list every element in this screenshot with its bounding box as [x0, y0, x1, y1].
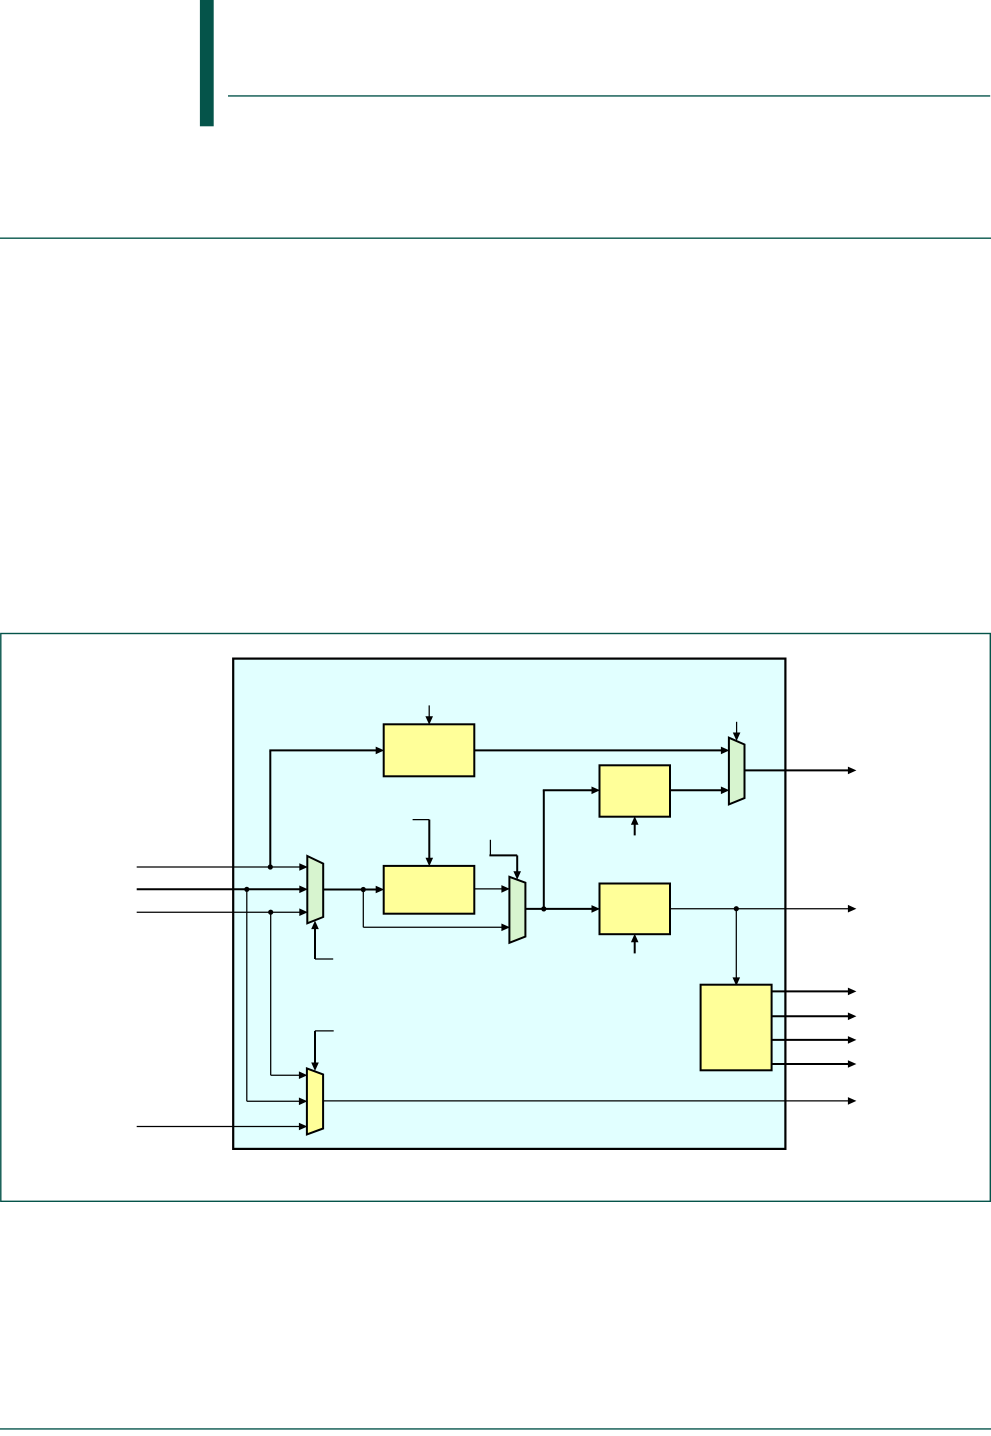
mux M2: [509, 877, 525, 943]
wire J6 down to B5: [735, 909, 737, 980]
wire B4 output to right: [670, 908, 850, 910]
wire J2 down to M4 input 2: [246, 889, 248, 1101]
wire control into M2 top: [489, 840, 491, 856]
node J1 on line 1: [268, 864, 273, 869]
mux M3: [729, 738, 745, 805]
wire B5 output 3: [772, 1039, 849, 1041]
header rule: [228, 95, 990, 97]
wire B5 output 2: [772, 1015, 849, 1017]
footer rule: [0, 1428, 991, 1430]
block B1: [384, 724, 475, 776]
wire input line 1: [137, 866, 302, 868]
wire control into M3 top: [736, 722, 738, 733]
mux M4: [307, 1068, 323, 1134]
title rule: [0, 237, 991, 239]
node J5 on M2 output: [541, 906, 546, 911]
node J3 on line 3: [268, 910, 273, 915]
wire M1 output: [323, 889, 378, 891]
header green bar: [200, 0, 214, 126]
wire B5 output 1: [772, 990, 849, 992]
node J2 on line 2: [244, 887, 249, 892]
wire M2 output to B4: [525, 908, 594, 910]
mux M1: [307, 856, 323, 923]
wire J3 down to M4 input 1: [270, 912, 272, 1075]
wire control into B3 bottom: [634, 823, 636, 835]
wire B3 output to mux M3: [670, 789, 723, 791]
wire B5 output 4: [772, 1063, 849, 1065]
block B5: [701, 985, 772, 1071]
block container (shaded region): [233, 659, 785, 1149]
wire input line 2: [137, 888, 302, 890]
block B2: [384, 866, 475, 914]
wire control into M4 top: [315, 1030, 334, 1032]
wire B2 output to mux M2: [474, 888, 504, 890]
wire M3 output (clock out): [745, 769, 850, 771]
wire input line 3: [137, 911, 302, 913]
wire control into B2 top: [413, 819, 430, 821]
wire M4 output (bypass out): [323, 1100, 850, 1102]
wire B1 output to mux M3: [474, 749, 723, 751]
wire J1 up to B1 input: [269, 751, 271, 867]
node J4 on M1 output: [361, 887, 366, 892]
wire control into B1 top: [428, 705, 430, 717]
wire control into B4 bottom: [634, 941, 636, 953]
wire bypass J4 to mux M2: [362, 890, 364, 928]
figure frame: [1, 634, 991, 1202]
block B4: [600, 884, 671, 935]
block B3: [600, 765, 671, 816]
wire J5 up to B3 input: [543, 790, 545, 909]
wire control into M1 bottom: [314, 925, 316, 959]
node J6 on B4 output: [734, 906, 739, 911]
wire bottom input to M4 input 3: [137, 1126, 300, 1128]
